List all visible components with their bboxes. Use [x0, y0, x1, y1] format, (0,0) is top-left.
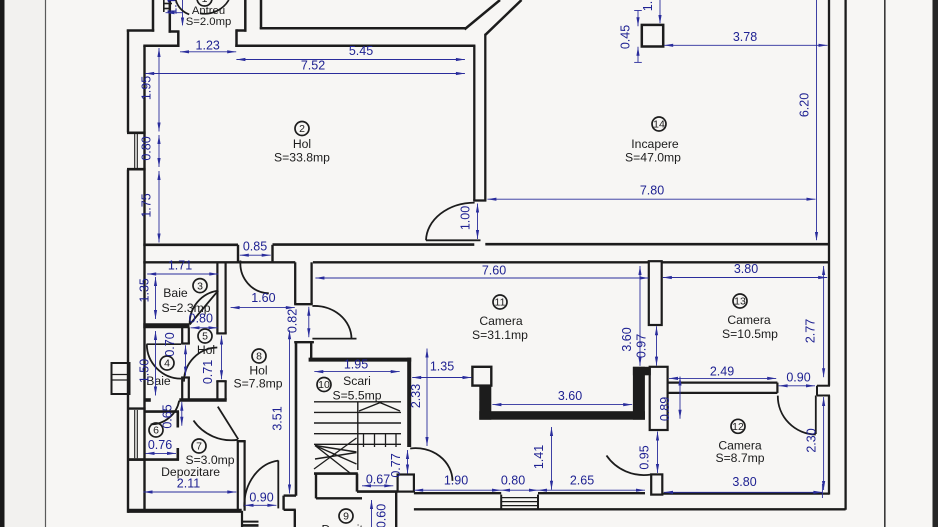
svg-text:3.60: 3.60	[620, 327, 634, 351]
svg-text:12: 12	[732, 421, 744, 433]
svg-text:2.77: 2.77	[804, 319, 818, 343]
svg-text:5.45: 5.45	[349, 44, 373, 58]
svg-text:S=47.0mp: S=47.0mp	[625, 151, 681, 165]
svg-text:0.70: 0.70	[163, 332, 177, 356]
svg-text:Scari: Scari	[343, 374, 371, 388]
svg-text:10: 10	[318, 379, 330, 391]
svg-text:7.80: 7.80	[640, 183, 664, 197]
svg-text:2.11: 2.11	[177, 476, 200, 490]
svg-text:9: 9	[343, 511, 349, 523]
svg-text:S=2.0mp: S=2.0mp	[186, 16, 232, 28]
svg-text:3.51: 3.51	[271, 406, 285, 430]
svg-text:S=7.8mp: S=7.8mp	[233, 377, 282, 391]
svg-text:6: 6	[153, 425, 159, 437]
svg-text:7.52: 7.52	[301, 58, 325, 72]
svg-text:14: 14	[653, 119, 665, 131]
svg-text:1.00: 1.00	[459, 206, 473, 230]
svg-text:0.80: 0.80	[501, 474, 525, 488]
svg-text:Hol: Hol	[293, 137, 311, 151]
svg-text:2.33: 2.33	[409, 384, 423, 408]
svg-text:0.80: 0.80	[140, 136, 154, 160]
svg-text:2.49: 2.49	[710, 365, 734, 379]
svg-text:0.76: 0.76	[148, 438, 172, 452]
svg-text:S=33.8mp: S=33.8mp	[274, 151, 330, 165]
svg-text:S=10.5mp: S=10.5mp	[722, 327, 778, 341]
svg-text:0.85: 0.85	[243, 240, 267, 254]
svg-text:11: 11	[495, 297, 506, 309]
svg-text:1.90: 1.90	[444, 474, 468, 488]
svg-text:2.65: 2.65	[570, 474, 594, 488]
svg-text:Camera: Camera	[479, 314, 523, 328]
svg-text:Incapere: Incapere	[631, 137, 679, 151]
svg-text:1.75: 1.75	[140, 193, 154, 217]
svg-text:1.23: 1.23	[196, 38, 220, 52]
svg-text:0.97: 0.97	[635, 334, 649, 358]
svg-text:1.50: 1.50	[137, 359, 151, 383]
svg-text:0.82: 0.82	[286, 309, 300, 333]
svg-text:0.95: 0.95	[638, 445, 652, 469]
svg-text:Hol: Hol	[249, 364, 267, 378]
svg-text:8: 8	[256, 351, 262, 363]
svg-text:13: 13	[734, 296, 746, 308]
svg-text:2.30: 2.30	[805, 428, 819, 452]
svg-text:0.60: 0.60	[375, 504, 389, 527]
svg-text:4: 4	[164, 358, 170, 370]
svg-text:0.90: 0.90	[249, 491, 273, 505]
svg-text:0.71: 0.71	[201, 360, 215, 384]
svg-text:1.35: 1.35	[137, 278, 151, 302]
svg-text:7.60: 7.60	[482, 264, 506, 278]
svg-text:0.45: 0.45	[619, 25, 633, 49]
svg-text:7: 7	[196, 441, 202, 453]
svg-text:1.: 1.	[641, 1, 655, 11]
svg-text:3.78: 3.78	[733, 30, 757, 44]
svg-text:0.67: 0.67	[366, 472, 390, 486]
svg-text:0.77: 0.77	[389, 453, 403, 477]
svg-text:0.65: 0.65	[161, 404, 175, 428]
svg-text:5: 5	[202, 331, 208, 343]
svg-text:0.90: 0.90	[786, 370, 810, 384]
svg-text:Hol: Hol	[197, 343, 215, 357]
svg-text:1.60: 1.60	[251, 291, 275, 305]
svg-text:3.80: 3.80	[734, 262, 758, 276]
svg-text:1.41: 1.41	[532, 445, 546, 469]
svg-text:Camera: Camera	[727, 313, 771, 327]
svg-text:S=8.7mp: S=8.7mp	[715, 451, 764, 465]
svg-text:3.60: 3.60	[558, 389, 582, 403]
svg-text:0.89: 0.89	[658, 397, 672, 421]
svg-text:1.95: 1.95	[140, 76, 154, 100]
svg-text:1.95: 1.95	[344, 358, 368, 372]
svg-text:6.20: 6.20	[798, 93, 812, 117]
svg-text:0.80: 0.80	[189, 312, 213, 326]
svg-text:3.80: 3.80	[732, 475, 756, 489]
svg-text:2: 2	[299, 123, 305, 135]
svg-text:3: 3	[197, 280, 203, 292]
svg-text:Baie: Baie	[163, 286, 188, 300]
svg-text:1.71: 1.71	[168, 259, 192, 273]
svg-text:S=5.5mp: S=5.5mp	[332, 389, 381, 403]
svg-text:S=31.1mp: S=31.1mp	[472, 328, 528, 342]
svg-text:1.35: 1.35	[430, 359, 454, 373]
